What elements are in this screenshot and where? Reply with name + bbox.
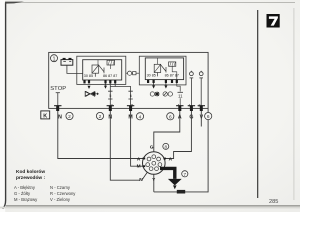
svg-text:11: 11 (178, 94, 183, 99)
wire V stub (200, 111, 202, 127)
svg-text:V - Zielony: V - Zielony (50, 197, 71, 202)
wire G to socket right A (165, 111, 192, 159)
svg-text:K: K (43, 113, 47, 119)
wire N2 to socket N (110, 111, 140, 180)
svg-text:przewodów :: przewodów : (16, 175, 45, 181)
wire N1 to socket left A (58, 111, 144, 159)
wire socket bottom V (153, 174, 155, 192)
node 8 (circled) (163, 143, 169, 149)
svg-text:30 85: 30 85 (147, 74, 156, 78)
relay K1 coil (92, 60, 99, 73)
relay module outer box right (139, 56, 186, 85)
svg-text:2: 2 (68, 114, 71, 120)
svg-text:6: 6 (130, 94, 132, 98)
figure label black blob on bottom frame (177, 190, 185, 194)
figure frame: right edge lower part (207, 108, 209, 192)
wire battery to relay module (67, 65, 83, 73)
svg-text:A - Błękitny: A - Błękitny (14, 185, 36, 190)
svg-text:86 87 87: 86 87 87 (103, 74, 117, 78)
svg-text:1: 1 (53, 56, 56, 62)
svg-text:86 87 87: 86 87 87 (165, 74, 179, 78)
relay K2 pin stubs (147, 80, 178, 83)
svg-text:R - Czerwony: R - Czerwony (50, 191, 76, 196)
svg-text:G - Żółty: G - Żółty (14, 191, 31, 196)
figure frame: top box (49, 52, 208, 108)
arrow under K1 pin 86 (104, 83, 107, 88)
connector symbol 11 (178, 92, 184, 98)
svg-text:285: 285 (269, 199, 278, 205)
bulkhead pin P6 (198, 105, 205, 111)
arrow under K1 pin 85 (88, 86, 91, 89)
relay K1 box (83, 60, 122, 80)
chapter tab 7 (267, 14, 280, 28)
lamp symbol pair right (163, 92, 173, 96)
relay K2 resistor (169, 62, 177, 80)
svg-text:M - Brązowy: M - Brązowy (14, 197, 38, 202)
svg-text:6: 6 (169, 114, 172, 120)
bulkhead pin P5 (188, 105, 195, 111)
node 1 (circled) (51, 55, 58, 63)
svg-text:G: G (150, 145, 154, 151)
terminal circle 2 (199, 71, 203, 106)
connector K box (41, 111, 50, 120)
relay K1 pin stubs (83, 80, 116, 83)
svg-text:N - Czarny: N - Czarny (50, 185, 71, 190)
relay K2 coil (154, 58, 161, 73)
bulkhead pin P4 (176, 105, 183, 111)
node 7 (circled) (182, 171, 188, 177)
scan left page edge line (3, 3, 6, 209)
svg-text:8: 8 (165, 144, 168, 149)
relay K2 box (145, 58, 183, 80)
wire STOP to K pin (56, 93, 60, 106)
wire 87 to connector 11 (177, 83, 180, 106)
svg-text:7: 7 (184, 172, 187, 177)
wire M to socket M (131, 111, 144, 166)
figure frame: bottom edge (154, 191, 209, 193)
svg-text:N: N (139, 177, 143, 183)
scan bottom page edge band (6, 205, 300, 207)
wire A to socket top G (154, 111, 180, 152)
margin vertical rule (257, 10, 258, 198)
svg-text:Kod kolorów: Kod kolorów (16, 169, 45, 175)
inline connector between relay modules (126, 71, 139, 75)
scan top-left dark wedge (5, 2, 24, 4)
relay K2 contact (157, 65, 166, 77)
arrow under K2 pin 86 (164, 83, 167, 89)
socket pin diagonal N (142, 172, 147, 179)
svg-text:4: 4 (139, 114, 142, 120)
wire pin 87 down to pin row (109, 83, 111, 105)
svg-text:M: M (137, 163, 141, 169)
bulkhead pin P3 (127, 105, 134, 111)
socket pin tick left A (143, 158, 146, 160)
node 2b (circled) (96, 112, 103, 120)
svg-text:5: 5 (109, 94, 111, 98)
battery B1 (61, 58, 73, 65)
node 4 (circled) (136, 113, 143, 121)
svg-text:2: 2 (99, 114, 102, 120)
bulkhead pin P1 (54, 105, 61, 111)
relay module outer box left (77, 56, 126, 84)
inline connector 6 on wire M (128, 91, 132, 99)
socket pin tick right A (163, 158, 166, 160)
svg-text:A: A (137, 156, 141, 162)
ground G1 thick arrow (160, 168, 182, 189)
svg-text:STOP: STOP (50, 86, 66, 92)
bulkhead pin P2 (107, 105, 114, 111)
trailer socket X1 body (143, 152, 166, 175)
node 6 left (circled) (167, 113, 174, 121)
scan right page edge line (293, 8, 294, 200)
svg-text:N: N (58, 115, 62, 121)
wire pin 87b jog to M wire (110, 83, 130, 105)
fuse F1 symbol (85, 91, 98, 96)
svg-text:30 85: 30 85 (84, 74, 93, 78)
svg-text:A: A (169, 156, 173, 162)
scan top edge line (5, 2, 295, 3)
relay K1 resistor (107, 60, 115, 69)
svg-text:6: 6 (207, 114, 210, 120)
node 6 right (circled) (205, 113, 212, 121)
arrow under K2 pin 85 (152, 83, 155, 89)
node 2 (circled) (66, 112, 73, 120)
relay K1 contact (95, 65, 104, 77)
lamp symbol pair left (150, 92, 159, 97)
inline connector 5 on wire N (108, 91, 112, 99)
terminal circle 1 (190, 71, 194, 106)
socket pin tick left M (143, 165, 146, 167)
